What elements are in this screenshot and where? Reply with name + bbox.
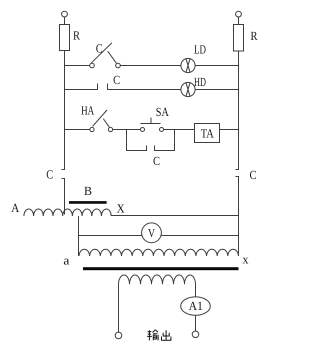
svg-text:C: C [96, 42, 103, 56]
switch HA throw circle [108, 127, 112, 131]
svg-text:HD: HD [194, 75, 206, 89]
switch HA jaw [103, 119, 109, 128]
ammeter A1 [181, 297, 211, 315]
right bus wire upper [236, 51, 239, 170]
output lead left [118, 284, 120, 332]
relay coil TA box [195, 124, 220, 143]
switch C jaw [108, 51, 117, 63]
switch HA blade [93, 110, 107, 126]
svg-text:R: R [251, 29, 259, 43]
tap wire down to a [78, 216, 80, 256]
svg-text:C: C [113, 73, 120, 87]
lamp LD [181, 58, 195, 72]
svg-text:a: a [63, 254, 69, 268]
wire X end to right bus [111, 215, 239, 217]
wire TA to right bus [220, 129, 239, 131]
svg-text:x: x [243, 252, 250, 266]
left bus wire upper [62, 51, 65, 170]
label 输出 (hanzi shu) [147, 330, 158, 341]
svg-text:LD: LD [194, 43, 206, 57]
switch C blade [91, 43, 111, 63]
svg-text:A1: A1 [189, 299, 203, 313]
output winding [119, 275, 196, 284]
output lead right upper [195, 284, 197, 297]
wire SA to TA [164, 129, 195, 131]
contact C parallel branch right [155, 130, 175, 151]
brush bar B [69, 201, 107, 204]
svg-text:TA: TA [201, 126, 214, 140]
output lead right lower [195, 315, 197, 331]
resistor R (left) [60, 25, 70, 51]
terminal circle output left [115, 332, 122, 339]
wire line2 left + contact C tick [65, 84, 98, 90]
wire line2 right [195, 89, 238, 91]
svg-text:R: R [73, 29, 81, 43]
contactor C contact (right bus) lower wire [236, 177, 239, 257]
terminal circle top-right [236, 11, 242, 17]
svg-text:V: V [148, 226, 155, 240]
terminal circle output right [192, 331, 199, 338]
winding a-x [79, 249, 238, 256]
wire line1 left [65, 65, 90, 67]
wire voltmeter to right bus [161, 235, 239, 237]
label 输出 (hanzi chu) [162, 330, 171, 340]
voltmeter V [142, 223, 162, 243]
switch C throw circle [116, 63, 121, 68]
svg-text:X: X [117, 202, 125, 216]
resistor R (right) [234, 25, 244, 52]
contactor C contact (left bus) lower wire [62, 179, 65, 215]
wire to voltmeter [79, 235, 143, 237]
svg-text:C: C [153, 154, 160, 168]
wire [238, 17, 240, 25]
svg-text:C: C [46, 167, 53, 181]
lamp HD [181, 82, 195, 96]
contact C right tick + wire [108, 84, 182, 90]
wire [64, 17, 66, 25]
wire line1 right [195, 65, 238, 67]
switch HA pivot circle [90, 127, 94, 131]
svg-text:A: A [11, 201, 19, 215]
svg-text:B: B [84, 184, 92, 198]
wire line3 HA to SA [113, 129, 141, 131]
pushbutton SA contact circles [141, 128, 145, 132]
wire line1 mid [120, 65, 181, 67]
wire line3 left [65, 129, 91, 131]
pushbutton SA actuator [141, 118, 161, 124]
contact C parallel branch left [127, 130, 147, 151]
core bar [83, 267, 239, 270]
svg-text:C: C [250, 168, 257, 182]
terminal circle top-left [62, 11, 68, 17]
svg-text:SA: SA [156, 105, 169, 119]
svg-text:HA: HA [81, 103, 94, 117]
autotransformer winding A-X [24, 209, 111, 216]
switch C pivot circle [90, 63, 95, 68]
